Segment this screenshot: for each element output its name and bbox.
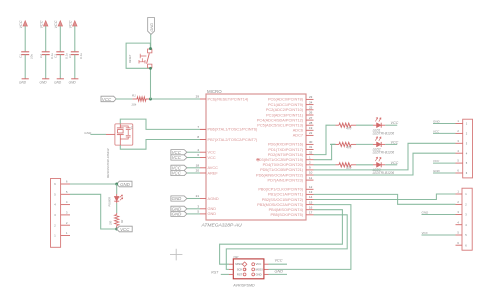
svg-text:PD3(INT1/OC2B/PCINT19): PD3(INT1/OC2B/PCINT19) — [256, 158, 303, 162]
pin 20 AREF — [200, 172, 206, 174]
svg-text:2: 2 — [466, 132, 468, 136]
svg-text:VCC: VCC — [275, 259, 283, 263]
connector JP2 pin 4 — [456, 152, 463, 154]
wire pin 9 to connector JP2 pin 3 — [314, 143, 456, 170]
pin 13 PB1(OC1A/PCINT1) — [306, 193, 314, 195]
svg-text:5: 5 — [197, 210, 199, 214]
svg-text:9: 9 — [309, 166, 311, 170]
flag VCC power — [117, 226, 133, 232]
svg-text:GND: GND — [208, 212, 217, 216]
svg-text:VCC: VCC — [422, 231, 429, 235]
connector JP3 pin 1 — [456, 193, 463, 195]
junction VCC power — [115, 228, 118, 231]
wire ISP VCC — [264, 263, 269, 265]
svg-text:4: 4 — [457, 149, 459, 153]
capacitor C3 — [56, 51, 64, 53]
pin 14 PB2(SS/OC1B/PCINT2) — [306, 199, 314, 201]
wire pin 14 to connector JP3 pin 1 — [314, 194, 456, 200]
wire pin 32 to LED1 row — [314, 125, 331, 154]
connector JP1 pin 6 — [61, 183, 70, 185]
svg-text:21: 21 — [196, 194, 200, 198]
svg-text:LEDTRI-B1206: LEDTRI-B1206 — [373, 171, 395, 175]
svg-text:3: 3 — [66, 211, 68, 215]
svg-text:3: 3 — [54, 213, 56, 217]
svg-text:5: 5 — [457, 159, 459, 163]
svg-text:10u: 10u — [30, 54, 34, 59]
svg-text:GND: GND — [172, 196, 183, 201]
wire JP1 pin 6 to GND flag — [70, 183, 117, 185]
supply flag VCC (reset pullup) — [101, 96, 116, 102]
svg-text:470: 470 — [346, 126, 352, 130]
connector JP2 pin 3 — [456, 142, 463, 144]
ground below C3 — [57, 78, 64, 80]
LED PWR — [116, 194, 118, 196]
capacitor C4 — [71, 51, 79, 53]
pin 29 PC6(/RESET/PCINT14) — [200, 98, 206, 100]
svg-text:0.1u: 0.1u — [79, 53, 83, 59]
svg-text:1: 1 — [309, 155, 311, 159]
wire SCK pin 17 to ISP — [226, 215, 347, 270]
sheet origin cross — [170, 249, 182, 261]
svg-text:GND: GND — [433, 119, 441, 123]
svg-text:VCC: VCC — [172, 150, 182, 155]
capacitor C2 — [42, 51, 50, 53]
wire LED2 to VCC label — [385, 143, 397, 145]
svg-text:6: 6 — [457, 169, 459, 173]
svg-text:15: 15 — [309, 200, 313, 204]
svg-text:VCC: VCC — [39, 20, 43, 28]
svg-text:VCC: VCC — [391, 161, 399, 165]
svg-text:VCC: VCC — [68, 20, 72, 28]
pin 25 PC2(ADC2/PCINT10) — [306, 109, 314, 111]
svg-text:C3: C3 — [54, 54, 58, 58]
connector JP3 pin 5 — [456, 234, 463, 236]
flag GND above reset switch — [148, 18, 155, 35]
svg-text:MISO: MISO — [235, 262, 242, 266]
resistor R1 — [132, 98, 137, 100]
vcc symbol above C1 — [23, 21, 27, 26]
pin 17 PB5(SCK/PCINT5) — [306, 214, 314, 216]
svg-text:C1: C1 — [18, 54, 22, 58]
svg-text:10: 10 — [309, 171, 313, 175]
svg-text:PC6(/RESET/PCINT14): PC6(/RESET/PCINT14) — [208, 97, 250, 101]
wire pin 13 to connector JP3 pin 2 — [314, 194, 456, 204]
wire MOSI pin 15 to ISP — [269, 205, 351, 270]
pin 12 PB0(ICP1/CLKO/PCINT0) — [306, 188, 314, 190]
svg-text:AVRISPSMD: AVRISPSMD — [232, 284, 255, 288]
svg-text:PB2(SS/OC1B/PCINT2): PB2(SS/OC1B/PCINT2) — [262, 198, 304, 202]
svg-text:20: 20 — [196, 169, 200, 173]
svg-text:LEDTRI-B1206: LEDTRI-B1206 — [373, 151, 395, 155]
svg-text:R1: R1 — [132, 93, 136, 97]
svg-text:AVCC: AVCC — [208, 166, 219, 170]
pin 24 PC1(ADC1/PCINT9) — [306, 104, 314, 106]
connector ISP1 AVR-ISP-SMD — [233, 259, 264, 279]
connector JP1 pin 2 — [61, 224, 70, 226]
pin 8 PB7(XTAL2/TOSC2/PCINT7) — [200, 139, 206, 141]
svg-text:6: 6 — [465, 243, 467, 247]
svg-text:GND: GND — [149, 23, 154, 32]
resonator Y1 — [115, 124, 133, 145]
wire pin 2 to LED3 row — [314, 164, 331, 166]
connector JP1 pin 5 — [61, 193, 70, 195]
switch S1 (reset button) — [148, 49, 152, 53]
svg-text:5: 5 — [54, 192, 56, 196]
svg-text:ISP: ISP — [234, 255, 239, 259]
ground below C4 — [71, 78, 78, 80]
svg-text:PC2(ADC2/PCINT10): PC2(ADC2/PCINT10) — [266, 108, 304, 112]
pin 16 PB4(MISO/PCINT4) — [306, 209, 314, 211]
svg-text:SCK: SCK — [237, 267, 243, 271]
svg-text:2: 2 — [457, 200, 459, 204]
svg-text:19: 19 — [309, 126, 313, 130]
svg-text:4: 4 — [466, 151, 468, 155]
svg-text:6: 6 — [457, 241, 459, 245]
connector JP2 pin 6 — [456, 172, 463, 174]
svg-text:GND: GND — [208, 207, 217, 211]
wire C3 top — [59, 26, 61, 51]
svg-text:7: 7 — [197, 125, 199, 129]
svg-text:PB6(XTAL1/TOSC1/PCINT6): PB6(XTAL1/TOSC1/PCINT6) — [208, 128, 259, 132]
wire resonator to XTAL1 — [120, 119, 200, 129]
svg-text:GND: GND — [172, 212, 183, 217]
wire around switch — [126, 43, 150, 68]
svg-text:13: 13 — [309, 190, 313, 194]
svg-text:ADC7: ADC7 — [293, 134, 303, 138]
svg-text:30: 30 — [309, 140, 313, 144]
svg-text:R2: R2 — [121, 219, 124, 223]
connector JP1 box — [51, 179, 61, 248]
connector JP3 pin 2 — [456, 203, 463, 205]
svg-text:1: 1 — [54, 234, 56, 238]
svg-text:22: 22 — [309, 131, 313, 135]
pin 2 PD4(T0/XCK/PCINT20) — [306, 164, 314, 166]
wire ISP GND — [264, 273, 269, 275]
ground below C2 — [42, 78, 49, 80]
svg-text:1: 1 — [457, 119, 459, 123]
svg-text:PD0(RXD/PCINT16): PD0(RXD/PCINT16) — [268, 143, 304, 147]
connector JP3 pin 6 — [456, 244, 463, 246]
wire C4 bottom — [74, 55, 76, 79]
pin 6 VCC — [200, 157, 206, 159]
svg-text:27: 27 — [309, 116, 313, 120]
connector JP3 pin 4 — [456, 224, 463, 226]
svg-text:6: 6 — [466, 171, 468, 175]
wire C3 bottom — [59, 55, 61, 79]
connector JP2 pin 1 — [456, 123, 463, 125]
LED LED1 — [373, 124, 377, 126]
svg-text:5: 5 — [466, 161, 468, 165]
svg-text:4: 4 — [197, 148, 199, 152]
svg-text:GND: GND — [40, 81, 48, 85]
pin 21 AGND — [200, 198, 206, 200]
svg-text:PC3(ADC3/PCINT11): PC3(ADC3/PCINT11) — [266, 113, 304, 117]
junction reset net — [149, 98, 152, 101]
wire R4 to LED2 — [356, 143, 373, 145]
svg-text:GND: GND — [120, 182, 131, 187]
svg-text:PD4(T0/XCK/PCINT20): PD4(T0/XCK/PCINT20) — [263, 163, 304, 167]
connector JP3 pin 3 — [456, 214, 463, 216]
pin 3 GND — [200, 208, 206, 210]
wire R1 to pin 29 — [151, 98, 201, 100]
pin 7 PB6(XTAL1/TOSC1/PCINT6) — [200, 128, 206, 130]
svg-text:4: 4 — [66, 200, 68, 204]
vcc symbol above C4 — [73, 21, 77, 26]
svg-text:5: 5 — [66, 190, 68, 194]
svg-text:14: 14 — [309, 195, 313, 199]
svg-text:PD1(TXD/PCINT17): PD1(TXD/PCINT17) — [268, 148, 303, 152]
pin 10 PD6(AIN0/OC0A/PCINT22) — [306, 174, 314, 176]
svg-text:PC1(ADC1/PCINT9): PC1(ADC1/PCINT9) — [268, 103, 304, 107]
svg-text:3: 3 — [197, 205, 199, 209]
svg-text:PB1(OC1A/PCINT1): PB1(OC1A/PCINT1) — [268, 193, 304, 197]
wire C2 top — [45, 26, 47, 51]
svg-text:470: 470 — [346, 146, 352, 150]
svg-text:VCC: VCC — [19, 20, 23, 28]
svg-text:PB5(SCK/PCINT5): PB5(SCK/PCINT5) — [271, 213, 304, 217]
svg-text:LEDTRI-B1206: LEDTRI-B1206 — [373, 131, 395, 135]
wire C4 top — [74, 26, 76, 51]
pin 31 PD1(TXD/PCINT17) — [306, 149, 314, 151]
svg-text:3: 3 — [466, 141, 468, 145]
svg-text:RST: RST — [211, 270, 219, 274]
svg-text:28: 28 — [309, 121, 313, 125]
svg-text:GND: GND — [69, 81, 77, 85]
svg-text:PB7(XTAL2/TOSC2/PCINT7): PB7(XTAL2/TOSC2/PCINT7) — [208, 138, 259, 142]
pin 26 PC3(ADC3/PCINT11) — [306, 114, 314, 116]
pin 27 PC4(ADC4/SDA/PCINT12) — [306, 119, 314, 121]
svg-text:25: 25 — [309, 106, 313, 110]
svg-text:PD5(T1/OC0B/PCINT21): PD5(T1/OC0B/PCINT21) — [260, 168, 304, 172]
origin cross U1 — [256, 158, 259, 161]
svg-text:VCC: VCC — [433, 129, 440, 133]
svg-text:VCC: VCC — [433, 159, 440, 163]
svg-text:2: 2 — [66, 221, 68, 225]
svg-text:4: 4 — [465, 223, 467, 227]
wire C1 top — [24, 26, 26, 51]
connector JP2 pin 2 — [456, 132, 463, 134]
svg-text:MOSI: MOSI — [256, 267, 263, 271]
wire R5 to LED3 — [356, 164, 373, 166]
connector JP1 pin 3 — [61, 214, 70, 216]
op-amp U1 microcontroller ATMEGA328P box — [206, 94, 306, 220]
svg-text:VCC: VCC — [391, 121, 399, 125]
wire MISO pin 16 to ISP — [220, 210, 343, 265]
svg-text:10k: 10k — [131, 102, 136, 106]
svg-text:1: 1 — [465, 192, 467, 196]
svg-text:VCC: VCC — [391, 140, 399, 144]
svg-text:PB4(MISO/PCINT4): PB4(MISO/PCINT4) — [269, 208, 304, 212]
svg-text:GND: GND — [422, 210, 430, 214]
svg-text:GND: GND — [433, 169, 441, 173]
svg-text:PD2(INT0/PCINT18): PD2(INT0/PCINT18) — [268, 153, 304, 157]
connector JP1 pin 1 — [61, 235, 70, 237]
svg-text:AREF: AREF — [208, 171, 219, 175]
pin 32 PD2(INT0/PCINT18) — [306, 154, 314, 156]
svg-text:23: 23 — [309, 95, 313, 99]
svg-text:1: 1 — [457, 190, 459, 194]
svg-text:4: 4 — [457, 220, 459, 224]
wire LED1 to VCC label — [385, 124, 397, 126]
resistor R4 — [330, 143, 336, 145]
vcc symbol above C3 — [58, 21, 62, 26]
pin 1 PD3(INT1/OC2B/PCINT19) — [306, 159, 314, 161]
connector JP2 box — [463, 119, 473, 178]
pin 30 PD0(RXD/PCINT16) — [306, 143, 314, 145]
svg-text:GND: GND — [256, 272, 262, 276]
ground below C1 — [22, 78, 29, 80]
LED LED3 — [373, 164, 377, 166]
resistor R5 — [330, 164, 336, 166]
svg-text:12: 12 — [309, 185, 313, 189]
connector JP3 box — [462, 188, 472, 250]
vcc symbol above C2 — [44, 21, 48, 26]
pin 5 GND — [200, 213, 206, 215]
pin 23 PC0(ADC0/PCINT8) — [306, 98, 314, 100]
wire C1 bottom — [24, 55, 26, 79]
svg-text:VCC: VCC — [208, 156, 216, 160]
svg-text:C4: C4 — [68, 54, 72, 58]
svg-text:RST: RST — [237, 272, 243, 276]
ISP pad RST — [243, 273, 246, 276]
svg-text:2: 2 — [54, 223, 56, 227]
ISP pad VCC — [252, 263, 255, 266]
svg-text:AGND: AGND — [208, 197, 219, 201]
svg-text:1: 1 — [66, 231, 68, 235]
svg-text:470: 470 — [346, 166, 352, 170]
wire GND flag to switch — [150, 34, 152, 48]
svg-text:18: 18 — [196, 164, 200, 168]
svg-text:ADC6: ADC6 — [293, 129, 303, 133]
svg-text:5: 5 — [457, 231, 459, 235]
connector JP1 pin 4 — [61, 204, 70, 206]
resistor R2 — [116, 213, 118, 215]
pin 28 PC5(ADC5/SCL/PCINT13) — [306, 124, 314, 126]
svg-text:MICRO: MICRO — [207, 89, 222, 94]
svg-text:16: 16 — [309, 205, 313, 209]
wire R3 to LED1 — [356, 124, 373, 126]
wire power LED to R2 — [116, 203, 118, 213]
wire JP1 pin 5 to VCC — [70, 194, 117, 229]
ISP pad MOSI — [252, 268, 255, 271]
wire resonator to XTAL2 — [120, 140, 200, 150]
svg-text:VCC: VCC — [102, 97, 112, 102]
svg-text:VCC: VCC — [120, 227, 130, 232]
svg-text:VCC: VCC — [54, 20, 58, 28]
wire VCC to R1 — [116, 98, 132, 100]
svg-text:4: 4 — [54, 203, 56, 207]
wire pin 10 to connector JP2 pin 4 — [314, 153, 456, 175]
svg-text:GND: GND — [54, 81, 62, 85]
svg-text:PB0(ICP1/CLKO/PCINT0): PB0(ICP1/CLKO/PCINT0) — [258, 188, 303, 192]
pin 19 ADC6 — [306, 129, 314, 131]
svg-text:RESET: RESET — [129, 54, 132, 63]
resistor R3 — [330, 124, 336, 126]
pin 11 PD7(AIN1/PCINT23) — [306, 179, 314, 181]
wire reset vertical — [150, 68, 152, 99]
svg-text:6: 6 — [197, 153, 199, 157]
svg-text:3: 3 — [465, 213, 467, 217]
wire GND to power LED — [116, 184, 118, 194]
connector JP2 pin 5 — [456, 162, 463, 164]
svg-text:3: 3 — [457, 210, 459, 214]
svg-text:6: 6 — [54, 182, 56, 186]
junction GND power — [115, 183, 118, 186]
svg-text:PD6(AIN0/OC0A/PCINT22): PD6(AIN0/OC0A/PCINT22) — [256, 173, 304, 177]
svg-text:PD7(AIN1/PCINT23): PD7(AIN1/PCINT23) — [268, 178, 304, 182]
svg-text:1: 1 — [466, 122, 468, 126]
svg-text:VCC: VCC — [172, 155, 182, 160]
pin 15 PB3(MOSI/OC2A/PCINT3) — [306, 204, 314, 206]
svg-text:C2: C2 — [39, 54, 43, 58]
svg-text:RESONATOR-16MHZ: RESONATOR-16MHZ — [106, 148, 110, 178]
wire GND to resonator — [90, 133, 106, 135]
svg-text:2: 2 — [465, 203, 467, 207]
svg-text:17: 17 — [309, 211, 313, 215]
svg-text:GND: GND — [275, 270, 284, 274]
wire LED3 to VCC label — [385, 164, 397, 166]
svg-text:PC5(ADC5/SCL/PCINT13): PC5(ADC5/SCL/PCINT13) — [257, 124, 303, 128]
flag GND power — [117, 181, 132, 187]
svg-text:2: 2 — [309, 161, 311, 165]
wire RST to ISP — [221, 273, 229, 275]
svg-text:VCC: VCC — [172, 171, 182, 176]
pin 18 AVCC — [200, 167, 206, 169]
svg-text:8: 8 — [197, 135, 199, 139]
svg-text:Y1: Y1 — [130, 126, 134, 130]
svg-text:VCC: VCC — [208, 151, 216, 155]
svg-text:PC4(ADC4/SDA/PCINT12): PC4(ADC4/SDA/PCINT12) — [257, 118, 304, 122]
wire pin 1 to LED2 row — [314, 144, 336, 159]
svg-text:6: 6 — [66, 180, 68, 184]
pin 22 ADC7 — [306, 134, 314, 136]
svg-text:PC0(ADC0/PCINT8): PC0(ADC0/PCINT8) — [268, 98, 304, 102]
LED LED2 — [373, 143, 377, 145]
svg-text:2: 2 — [457, 129, 459, 133]
svg-text:POWER: POWER — [108, 197, 111, 207]
pin 4 VCC — [200, 151, 206, 153]
svg-text:5: 5 — [465, 233, 467, 237]
svg-text:PB3(MOSI/OC2A/PCINT3): PB3(MOSI/OC2A/PCINT3) — [257, 203, 304, 207]
svg-text:26: 26 — [309, 111, 313, 115]
svg-text:ATMEGA328P-AU: ATMEGA328P-AU — [201, 223, 243, 229]
ISP pad MISO — [242, 262, 247, 267]
ISP pad GND — [252, 273, 255, 276]
svg-text:32: 32 — [309, 150, 313, 154]
svg-text:24: 24 — [309, 100, 313, 104]
svg-text:330: 330 — [110, 220, 113, 225]
pin 9 PD5(T1/OC0B/PCINT21) — [306, 169, 314, 171]
capacitor C1 — [21, 51, 29, 53]
svg-text:GND: GND — [19, 81, 27, 85]
wire C2 bottom — [45, 55, 47, 79]
svg-text:31: 31 — [309, 145, 313, 149]
svg-text:VCC: VCC — [256, 262, 262, 266]
svg-text:3: 3 — [457, 139, 459, 143]
svg-text:11: 11 — [309, 176, 312, 180]
ISP pad SCK — [243, 268, 246, 271]
svg-text:29: 29 — [196, 95, 200, 99]
